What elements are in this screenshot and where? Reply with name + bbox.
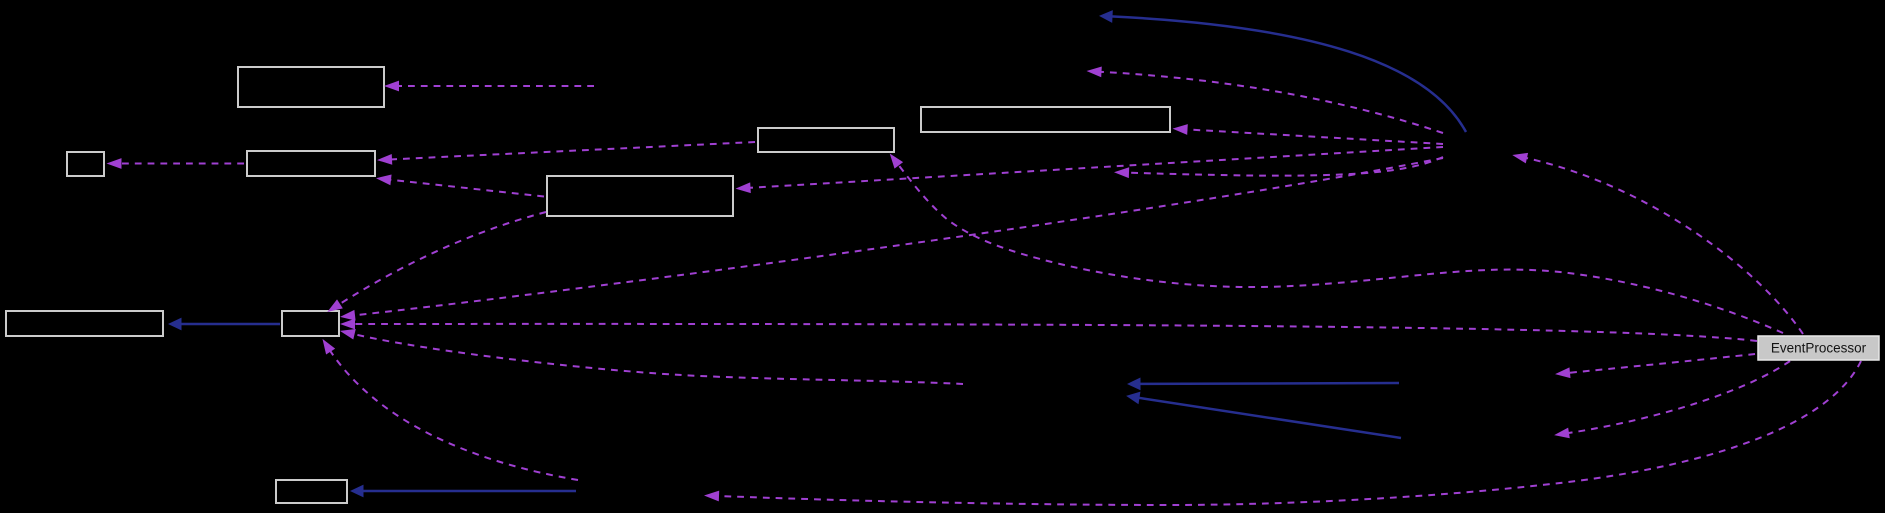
edge A to box6 (dashed) <box>1185 129 1444 144</box>
node box6 (wide) <box>921 107 1170 132</box>
hidden node H <box>964 372 1124 398</box>
node G (small hub) <box>282 311 339 336</box>
blue edge A to NB1 (solid inheritance) <box>1111 16 1466 132</box>
edge H to G (dashed g4) <box>352 334 963 384</box>
edge EP to F (dashed long bottom sweep) <box>716 361 1861 505</box>
edge A to G (dashed g2) <box>352 158 1443 316</box>
node box3 <box>247 151 375 176</box>
edge A to box4 (dashed) <box>748 147 1444 188</box>
edge box3 to box2 (dashed) <box>119 163 245 165</box>
edge F to G (dashed g5) <box>329 349 578 480</box>
blue edge I2 to H <box>1138 398 1401 438</box>
edge box4 to box3 corner (dashed) <box>388 180 544 197</box>
edge A to NB2 (dashed) <box>1099 72 1444 133</box>
hidden node J <box>990 160 1112 185</box>
edge C to box1 (dashed) <box>396 85 594 87</box>
node box5 <box>758 128 894 152</box>
edge box4 to G (dashed g1) <box>337 212 546 306</box>
hidden node C <box>597 74 717 98</box>
edge EP to I1 (dashed) <box>1567 354 1755 373</box>
edge EP to G (dashed g3 long horizontal) <box>352 324 1757 341</box>
hidden node NB1 <box>960 5 1095 29</box>
node box1 (top-left, two-line) <box>238 67 384 107</box>
node box2 (small left) <box>67 152 104 176</box>
node EventProcessor (current, grey filled) <box>1758 336 1879 360</box>
hidden node NB2 <box>950 59 1088 83</box>
blue edge G to box7 <box>180 323 280 326</box>
blue edge F to box9 <box>362 490 576 493</box>
node box9 (bottom) <box>276 480 347 503</box>
edge box5 to box3 (dashed) <box>389 142 755 160</box>
blue edge I1 to H <box>1139 382 1399 385</box>
edge A to J (dashed) <box>1126 157 1443 176</box>
edge EP to A (dashed) <box>1524 158 1803 335</box>
node box4 (two-line) <box>547 176 733 216</box>
node box7 (bottom-left wide) <box>6 311 163 336</box>
hidden node A <box>1443 132 1514 158</box>
hidden node I1 <box>1400 366 1557 390</box>
edge EP to I2 (dashed) <box>1566 361 1790 433</box>
edge EP to box5 (dashed long wiggle) <box>897 163 1783 333</box>
hidden node I2 <box>1402 426 1557 450</box>
hidden node F <box>578 479 704 505</box>
svg-text:EventProcessor: EventProcessor <box>1771 341 1867 356</box>
